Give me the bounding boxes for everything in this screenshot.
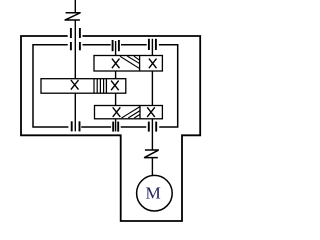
bearing input shaft bottom — [72, 121, 80, 131]
bearing shaft III bottom — [149, 122, 156, 132]
bearing shaft II top — [113, 40, 119, 51]
gear x on shaft II row 2 — [111, 81, 119, 91]
bearing shaft II bottom — [113, 122, 118, 132]
cone clutch hatch row 3 — [122, 107, 141, 118]
gear x on shaft III row 1 — [149, 59, 157, 69]
gear x on shaft II row 1 — [112, 59, 120, 69]
gear block row 3 — [95, 106, 163, 119]
gear block row 1 — [94, 56, 162, 72]
multi-plate clutch row 2 — [94, 79, 104, 94]
motor M — [137, 175, 173, 211]
gear x on shaft I row 2 — [71, 80, 79, 90]
input shaft I — [74, 0, 76, 131]
bearing shaft III top — [149, 39, 156, 50]
break symbol Z on motor shaft — [144, 150, 159, 158]
shaft III — [151, 39, 153, 176]
shaft II — [115, 41, 117, 131]
housing outer wall — [21, 36, 200, 221]
gear block row 2 — [41, 79, 126, 94]
gear x on shaft III row 3 — [147, 107, 155, 117]
gear x on shaft II row 3 — [113, 107, 121, 117]
bearing input shaft top — [71, 28, 80, 50]
svg-text:M: M — [146, 184, 161, 203]
cone clutch hatch row 1 — [120, 56, 139, 68]
housing inner wall — [33, 45, 178, 127]
break symbol Z on input shaft — [65, 13, 81, 20]
